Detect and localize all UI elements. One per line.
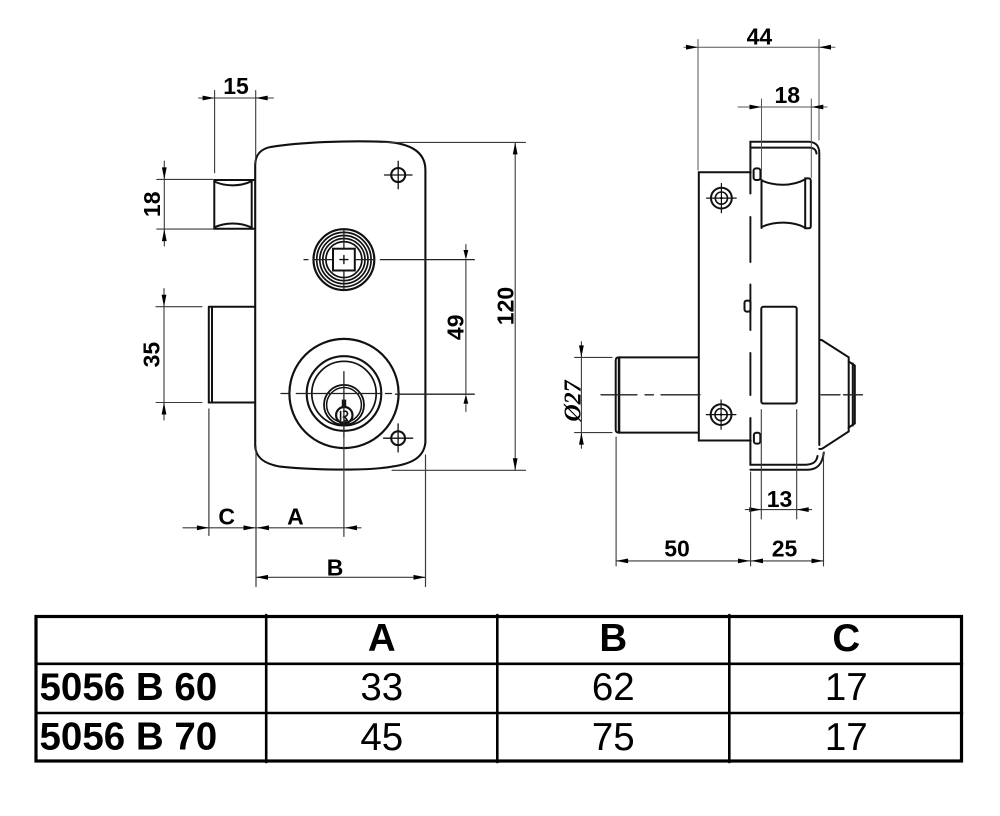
dim 18 right line and arrows [738, 105, 827, 110]
svg-text:5056 B 70: 5056 B 70 [40, 716, 218, 759]
dim 13 extension lines [761, 410, 796, 519]
svg-text:50: 50 [664, 536, 690, 562]
dim 35 extension lines [156, 307, 202, 403]
svg-text:13: 13 [767, 486, 793, 512]
bottom extension lines C A B [209, 409, 426, 587]
svg-text:120: 120 [492, 287, 518, 325]
screw mark bottom [384, 424, 413, 452]
tab top [754, 168, 761, 180]
svg-text:A: A [287, 504, 304, 530]
tab bottom [754, 433, 760, 444]
backplate [699, 172, 751, 440]
svg-text:5056 B 60: 5056 B 60 [40, 666, 218, 709]
svg-text:17: 17 [825, 716, 868, 759]
keyhole [336, 400, 352, 424]
cylinder (left, Ø27) [616, 357, 699, 432]
svg-text:17: 17 [825, 666, 868, 709]
dim 35 line and arrows [162, 289, 167, 421]
dim B line and arrows [256, 575, 426, 580]
dim C line and arrows [183, 525, 256, 530]
svg-text:49: 49 [442, 315, 468, 341]
side screw top [707, 184, 737, 213]
svg-text:35: 35 [139, 342, 165, 368]
svg-text:C: C [832, 617, 860, 660]
dim 120 line and arrows [513, 142, 518, 470]
dims 50 and 25 extension lines [616, 437, 823, 566]
svg-text:Ø27: Ø27 [561, 379, 587, 422]
dim 49 line and arrows [464, 245, 469, 412]
svg-text:45: 45 [360, 716, 403, 759]
side screw bottom [706, 400, 736, 429]
roller latch (side) [762, 178, 811, 228]
spindle hub circles [314, 229, 375, 290]
spindle square hole [333, 249, 355, 271]
dim 18 right extension lines [762, 99, 812, 178]
screw mark top [385, 161, 413, 188]
dim Ø27 line and arrows [579, 342, 584, 449]
case outline [750, 142, 823, 470]
dim A line and arrows [257, 525, 361, 530]
tab middle [745, 301, 751, 312]
deadbolt (left middle) [209, 307, 255, 403]
cylinder axis centerline [601, 394, 863, 396]
svg-text:C: C [218, 504, 235, 530]
dim 15 line and arrows [199, 96, 274, 101]
svg-text:18: 18 [775, 82, 801, 108]
keyhole crosshair [281, 372, 474, 438]
svg-text:62: 62 [592, 666, 635, 709]
dim 18 left extension lines [157, 179, 213, 229]
inner rectangle (bolt housing) [761, 307, 796, 404]
cylinder bell (right) [819, 340, 855, 449]
dim 44 extension lines [698, 40, 819, 171]
svg-text:15: 15 [223, 73, 249, 99]
svg-text:25: 25 [772, 536, 798, 562]
svg-text:33: 33 [360, 666, 403, 709]
dim 15 extension lines [215, 91, 256, 173]
keyhole boss circles [289, 339, 398, 448]
dim 44 line and arrows [684, 45, 835, 50]
svg-text:18: 18 [139, 191, 165, 217]
dim 50 line and arrows [616, 559, 750, 564]
spindle crosshair [304, 230, 474, 290]
latch bolt (top left) [214, 180, 255, 229]
svg-text:44: 44 [747, 24, 773, 50]
dim 18 left line and arrows [162, 161, 167, 246]
dim 120 extension lines [380, 142, 526, 470]
table grid [36, 615, 962, 762]
svg-text:A: A [368, 617, 396, 660]
dim Ø27 extension lines [575, 357, 612, 432]
svg-text:75: 75 [592, 716, 635, 759]
case hidden edge (dashed) [749, 217, 751, 395]
lock body outline [255, 141, 425, 469]
svg-text:B: B [327, 555, 344, 581]
dim 13 line and arrows [745, 507, 811, 512]
svg-text:B: B [599, 617, 627, 660]
dim 25 line and arrows [751, 559, 824, 564]
